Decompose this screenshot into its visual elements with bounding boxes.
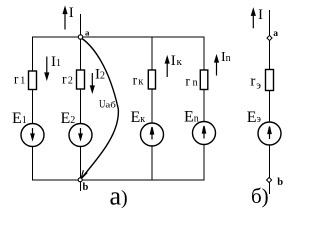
source E2 xyxy=(69,124,92,147)
source Ek xyxy=(141,123,164,146)
svg-text:I2: I2 xyxy=(95,67,105,83)
svg-text:б): б) xyxy=(251,184,269,208)
resistor rn xyxy=(200,70,208,90)
svg-text:b: b xyxy=(83,182,89,193)
svg-text:a: a xyxy=(273,29,278,39)
svg-text:r1: r1 xyxy=(14,71,25,86)
current arrow Ik xyxy=(166,58,168,78)
wire bottom bus b xyxy=(32,179,204,181)
wire branch3 middle xyxy=(151,89,153,123)
current arrow I1 xyxy=(46,57,48,79)
source E2 arrow (down) xyxy=(80,128,82,139)
wire branch1 lower xyxy=(32,147,34,181)
wire branch1 upper xyxy=(32,37,34,72)
svg-text:а): а) xyxy=(110,182,128,211)
wire branch2 middle xyxy=(80,89,82,124)
source E1 xyxy=(21,124,44,147)
wire top bus a xyxy=(32,36,204,38)
svg-text:rэ: rэ xyxy=(250,73,261,91)
wire branch4 upper xyxy=(203,37,205,71)
source Ee xyxy=(258,122,281,145)
wire branch4 lower xyxy=(203,145,205,181)
source En arrow (up) xyxy=(203,127,205,139)
wire branch2 upper xyxy=(80,37,82,70)
svg-text:I1: I1 xyxy=(51,54,61,70)
svg-text:Uаб: Uаб xyxy=(99,97,116,111)
wire equivalent branch lower xyxy=(269,145,271,194)
voltage Uab curve xyxy=(81,38,118,178)
svg-text:Eэ: Eэ xyxy=(247,109,261,126)
svg-text:a: a xyxy=(85,27,90,37)
source E1 arrow (down) xyxy=(32,128,34,139)
source Ek arrow (up) xyxy=(151,128,153,140)
svg-text:Eк: Eк xyxy=(131,109,146,126)
resistor re xyxy=(266,70,274,91)
svg-text:I: I xyxy=(258,7,263,23)
svg-text:En: En xyxy=(184,109,199,126)
svg-text:rк: rк xyxy=(133,73,145,88)
resistor rk xyxy=(148,70,155,89)
wire branch2 top stub xyxy=(80,14,82,37)
wire branch4 middle xyxy=(203,90,205,122)
wire branch2 bottom stub xyxy=(80,180,82,191)
wire equivalent branch middle xyxy=(269,91,271,123)
svg-text:E2: E2 xyxy=(61,110,76,127)
current arrow I2 xyxy=(91,73,93,92)
wire branch2 lower xyxy=(80,147,82,181)
current arrow I (left circuit) xyxy=(64,8,66,30)
arrowhead of Uab at node b xyxy=(81,170,87,179)
node b (left circuit) xyxy=(78,178,82,182)
svg-text:r2: r2 xyxy=(62,72,73,87)
svg-text:I: I xyxy=(69,5,74,21)
svg-text:b: b xyxy=(277,177,283,188)
wire equivalent branch upper xyxy=(269,10,271,70)
source Ee arrow (up) xyxy=(269,127,271,139)
node a (left circuit) xyxy=(78,35,82,39)
wire branch3 lower xyxy=(151,146,153,180)
svg-text:In: In xyxy=(221,50,231,65)
resistor r1 xyxy=(29,71,37,90)
node b (equivalent circuit) xyxy=(267,177,272,182)
resistor r2 xyxy=(77,70,85,89)
node a (equivalent circuit) xyxy=(267,35,272,40)
svg-text:E1: E1 xyxy=(12,110,27,127)
current arrow In xyxy=(216,57,218,76)
current arrow I (equivalent circuit) xyxy=(252,10,254,29)
svg-text:Iк: Iк xyxy=(171,53,183,69)
wire branch3 upper xyxy=(151,37,153,70)
wire branch1 middle xyxy=(32,90,34,124)
source En xyxy=(193,122,216,145)
svg-text:rn: rn xyxy=(185,74,198,89)
